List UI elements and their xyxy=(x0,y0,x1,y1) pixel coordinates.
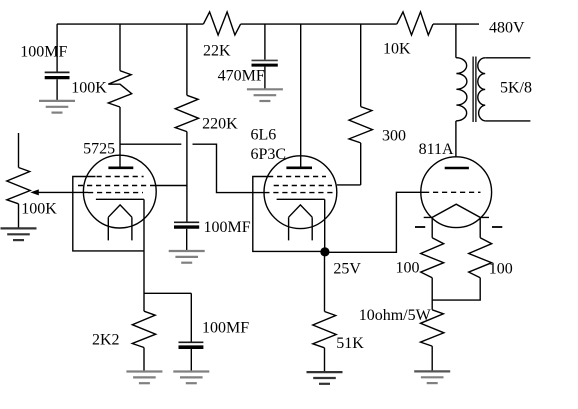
tube V1 heater xyxy=(108,205,132,241)
resistor R8 100 left filament xyxy=(396,238,444,278)
transformer T1 primary lead from rail xyxy=(455,24,457,58)
ground for 51K xyxy=(307,372,343,384)
wire V1 plate lead xyxy=(119,107,121,167)
wire V2 plate lead xyxy=(300,24,302,167)
transformer T1 core xyxy=(473,57,476,123)
wire B+ rail left segment xyxy=(57,23,204,25)
tube V1 grid row 3 dashes xyxy=(88,192,143,194)
tube V3 grid dashes xyxy=(424,191,481,193)
transformer T1 primary winding xyxy=(456,58,467,121)
resistor R4 220K xyxy=(175,24,238,133)
tube V3 811A envelope xyxy=(421,157,492,228)
ground for 2K2 xyxy=(126,372,162,384)
filament minus mark left xyxy=(415,226,425,228)
ground for C2 xyxy=(169,251,205,263)
ground for C3 xyxy=(173,372,209,384)
wire 25V node to 811A grid xyxy=(325,192,424,252)
tube V2 heater xyxy=(289,205,313,241)
svg-text:100: 100 xyxy=(396,260,420,277)
svg-text:5725: 5725 xyxy=(83,141,115,158)
potentiometer 100K input xyxy=(7,133,57,228)
box V2 suppressor-cathode tie xyxy=(253,177,325,252)
svg-text:480V: 480V xyxy=(489,20,525,37)
junction node 25V dot xyxy=(320,247,329,256)
tube V2 plate bar xyxy=(286,167,312,170)
svg-text:10ohm/5W: 10ohm/5W xyxy=(359,307,432,324)
svg-text:10K: 10K xyxy=(383,41,411,58)
capacitor C2 100MF screen bypass xyxy=(174,219,251,251)
wire V1 cathode drop xyxy=(143,251,145,311)
ground for C1 xyxy=(39,101,75,113)
ground for C4 xyxy=(247,89,283,101)
tube V2 6L6 envelope xyxy=(264,156,337,229)
tube V3 filament xyxy=(424,204,489,238)
svg-text:6L6: 6L6 xyxy=(251,126,277,143)
ground for potentiometer xyxy=(1,228,37,240)
resistor R10 10ohm/5W xyxy=(359,300,444,371)
svg-text:51K: 51K xyxy=(336,335,364,352)
wire T1 secondary bottom lead xyxy=(485,120,530,122)
svg-text:22K: 22K xyxy=(203,43,231,60)
tube V1 grid row 2 dashes xyxy=(78,185,150,187)
svg-text:470MF: 470MF xyxy=(218,68,265,85)
wire 5725 plate node horizontal xyxy=(120,143,181,145)
svg-text:25V: 25V xyxy=(333,261,361,278)
capacitor C3 100MF cathode bypass xyxy=(179,293,250,371)
svg-text:100MF: 100MF xyxy=(20,43,67,60)
svg-text:300: 300 xyxy=(382,128,406,145)
wire grid of V1 with wiper arrow xyxy=(30,189,88,195)
svg-text:811A: 811A xyxy=(419,141,454,158)
resistor R9 100 right filament xyxy=(469,238,513,278)
wire filament resistor bottoms xyxy=(432,278,480,300)
resistor R3 100K plate load of 5725 xyxy=(71,24,131,107)
svg-text:100K: 100K xyxy=(71,80,107,97)
resistor R1 22K xyxy=(203,12,241,60)
capacitor C4 470MF xyxy=(218,24,278,89)
tube V2 cathode line xyxy=(277,198,325,200)
resistor R7 51K xyxy=(313,252,365,372)
svg-text:100MF: 100MF xyxy=(204,219,251,236)
transformer T1 secondary winding xyxy=(478,58,485,121)
capacitor C1 100MF input filter xyxy=(20,24,69,101)
svg-text:100K: 100K xyxy=(21,201,57,218)
wire T1 primary to V3 plate xyxy=(455,121,457,157)
svg-text:220K: 220K xyxy=(202,116,238,133)
wire grid coupling to 6L6 xyxy=(193,144,265,192)
tube V1 5725 plate bar xyxy=(108,167,133,170)
svg-text:5K/8: 5K/8 xyxy=(500,80,532,97)
tube V1 5725 envelope xyxy=(83,155,156,228)
resistor R5 2K2 cathode xyxy=(92,311,156,371)
svg-text:100: 100 xyxy=(489,261,513,278)
ground for 10ohm xyxy=(414,371,450,383)
resistor R6 300 screen xyxy=(337,24,406,185)
tube V2 grid row 2 dashes xyxy=(274,185,332,187)
wire 220K bottom to C2 xyxy=(186,132,188,222)
svg-text:6P3C: 6P3C xyxy=(251,146,287,163)
wire T1 secondary top lead xyxy=(485,57,530,59)
tube V1 cathode line xyxy=(96,198,144,200)
tube V2 grid row 1 dashes xyxy=(268,176,326,178)
wire 5725 screen lead to 220K node xyxy=(150,185,187,187)
wire B+ rail right segment xyxy=(433,23,479,25)
filament minus mark right xyxy=(492,226,502,228)
svg-text:100MF: 100MF xyxy=(202,320,249,337)
svg-text:2K2: 2K2 xyxy=(92,332,120,349)
box V1 suppressor-cathode tie xyxy=(73,177,144,251)
tube V1 grid row 1 dashes xyxy=(97,176,144,178)
tube V2 grid row 3 dashes xyxy=(264,192,332,194)
wire B+ rail middle segment xyxy=(241,23,397,25)
tube V3 plate bar xyxy=(445,167,469,170)
wire cathode branch to C3 xyxy=(144,292,191,294)
resistor R2 10K xyxy=(383,12,433,58)
